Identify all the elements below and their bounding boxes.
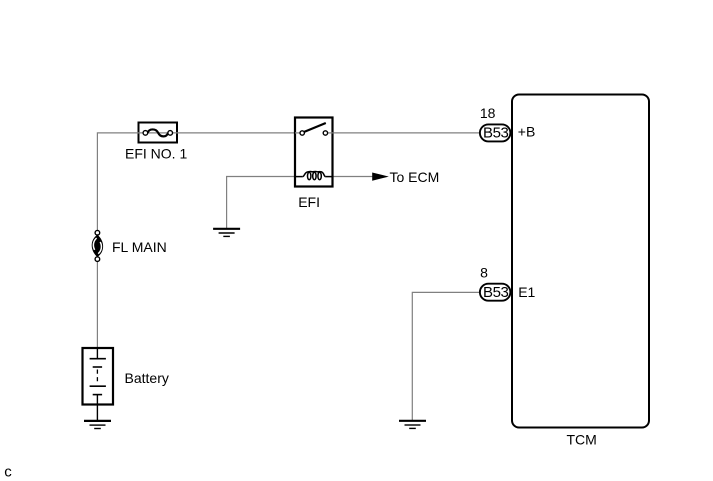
svg-text:B53: B53	[483, 125, 509, 142]
svg-text:8: 8	[480, 265, 488, 281]
svg-text:FL MAIN: FL MAIN	[112, 239, 167, 255]
battery	[83, 348, 114, 420]
TCM box	[512, 95, 649, 428]
svg-text:c: c	[4, 463, 12, 480]
wire: battery to fuse vertical left bus	[97, 133, 137, 347]
svg-text:E1: E1	[518, 284, 535, 300]
ground (E1)	[399, 421, 426, 429]
svg-text:B53: B53	[483, 284, 509, 301]
svg-text:To ECM: To ECM	[390, 169, 440, 185]
relay EFI box	[295, 118, 333, 187]
fusible link FL MAIN	[92, 230, 103, 261]
ground (relay coil)	[213, 229, 240, 237]
wire: relay coil to ECM arrow	[334, 176, 373, 178]
fuse EFI NO. 1	[138, 123, 179, 143]
svg-text:+B: +B	[518, 124, 536, 140]
svg-text:Battery: Battery	[125, 370, 169, 386]
svg-text:EFI NO. 1: EFI NO. 1	[125, 146, 187, 162]
relay coil	[295, 171, 333, 179]
relay switch contact	[295, 123, 334, 135]
wire: fuse to relay horizontal	[178, 132, 294, 134]
ground (battery)	[84, 421, 111, 429]
connector B53 pin 8	[480, 284, 511, 301]
connector B53 pin 18	[480, 124, 511, 141]
wire: E1 ground riser to connector B53 pin 8	[412, 292, 479, 420]
svg-text:TCM: TCM	[567, 431, 597, 447]
svg-text:EFI: EFI	[298, 194, 320, 210]
wire: relay coil to ground	[227, 177, 294, 229]
arrow To ECM	[372, 173, 389, 181]
svg-text:18: 18	[480, 105, 496, 121]
wire: relay to TCM connector B53 pin 18	[334, 132, 480, 134]
